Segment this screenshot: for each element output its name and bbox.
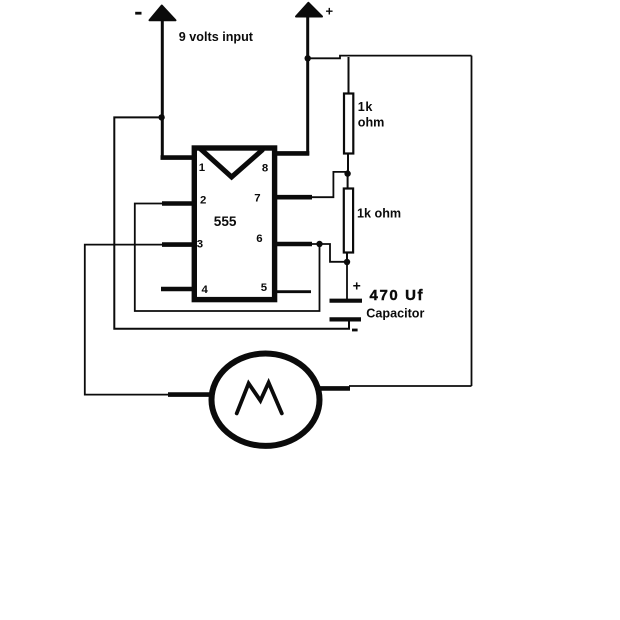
motor M1 right stub xyxy=(319,386,351,391)
label - (capacitor minus) xyxy=(352,329,358,332)
svg-text:+: + xyxy=(353,278,361,294)
555 notch mark xyxy=(201,149,263,177)
label R1 1k ohm xyxy=(358,100,385,130)
wire right rail to motor xyxy=(349,385,472,387)
battery positive terminal arrow xyxy=(296,3,322,17)
svg-text:9 volts input: 9 volts input xyxy=(179,30,254,44)
pin 4 stub xyxy=(161,287,196,292)
svg-text:8: 8 xyxy=(262,162,268,174)
wire negative vertical to pin 1 xyxy=(161,20,164,158)
node junction positive rail xyxy=(305,55,311,61)
capacitor C1 top plate xyxy=(330,299,363,303)
wire resistor R1 top lead xyxy=(348,57,350,94)
node junction negative rail xyxy=(158,114,164,120)
svg-text:2: 2 xyxy=(200,194,206,206)
motor M1 left stub xyxy=(168,392,213,397)
wire negative rail to capacitor minus xyxy=(114,117,349,328)
resistor R2 1k ohm xyxy=(344,189,353,253)
svg-text:Capacitor: Capacitor xyxy=(366,306,424,320)
wire resistor R2 top lead xyxy=(347,174,349,189)
pin 5 stub xyxy=(274,290,312,293)
node junction R1-R2-pin7 xyxy=(344,170,350,176)
svg-text:1: 1 xyxy=(199,162,206,174)
op-amp U1 555 timer body xyxy=(194,148,274,300)
node junction pin6-trigger link xyxy=(316,241,322,247)
pin 6 stub xyxy=(273,242,312,247)
wire pin 7 to R1/R2 junction xyxy=(311,172,348,197)
node junction R2-pin6-capacitor xyxy=(344,259,350,265)
svg-text:7: 7 xyxy=(254,193,260,205)
pin 1 stub xyxy=(161,155,197,160)
wire pin 6 to R2 bottom junction xyxy=(311,244,347,262)
wire resistor R2 bottom lead xyxy=(346,253,348,263)
capacitor C1 bottom plate xyxy=(330,317,362,321)
svg-text:6: 6 xyxy=(256,233,262,245)
svg-text:5: 5 xyxy=(261,282,268,294)
svg-text:1k: 1k xyxy=(358,100,374,114)
wire capacitor positive lead xyxy=(346,262,348,299)
svg-text:470 Uf: 470 Uf xyxy=(370,287,425,304)
svg-text:555: 555 xyxy=(214,214,237,229)
wire pin 6 to pin 2 link xyxy=(135,204,320,312)
pin 2 stub xyxy=(162,201,196,206)
svg-text:1k ohm: 1k ohm xyxy=(357,207,401,221)
pin 8 stub xyxy=(273,151,309,156)
label - (negative) xyxy=(135,12,141,15)
wire resistor R1 bottom lead xyxy=(347,154,349,174)
wire positive vertical to pin 8 xyxy=(306,16,309,155)
pin 7 stub xyxy=(273,195,312,200)
pin 3 stub xyxy=(162,242,196,247)
battery negative terminal arrow xyxy=(150,6,176,21)
svg-text:4: 4 xyxy=(202,284,209,296)
wire right rail down xyxy=(471,56,473,386)
resistor R1 1k ohm xyxy=(344,94,353,154)
motor M1 M mark xyxy=(237,383,282,414)
wire pin 3 to motor xyxy=(85,245,170,395)
wire positive top rail xyxy=(308,56,472,59)
svg-text:3: 3 xyxy=(197,238,203,250)
motor M1 body xyxy=(212,354,320,446)
svg-text:+: + xyxy=(326,4,334,19)
svg-text:ohm: ohm xyxy=(358,115,385,129)
